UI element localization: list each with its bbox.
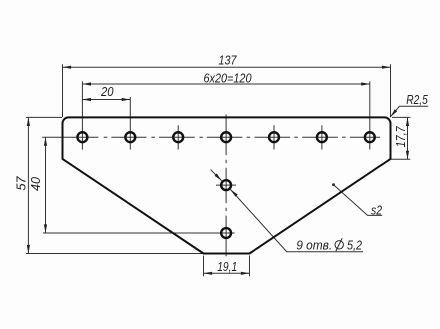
arrow 20 right — [122, 98, 131, 101]
extension line 137 left — [62, 64, 64, 117]
arrow 19.1 right — [241, 272, 250, 275]
arrow 40 top — [44, 137, 47, 146]
centerline hole 3 vertical — [177, 125, 179, 149]
extension line 40 bottom through lower middle hole — [43, 232, 235, 234]
arrow 57 bottom — [27, 245, 30, 254]
dimension line 40 — [45, 137, 47, 233]
arrow diameter lower-right — [229, 188, 237, 196]
svg-text:40: 40 — [28, 176, 43, 191]
extension line hole2 vertical — [129, 97, 131, 150]
dimension line 137 — [63, 66, 391, 68]
arrow 19.1 left — [204, 272, 213, 275]
hole 3 — [173, 132, 183, 142]
arrow 17.7 bottom — [406, 151, 409, 160]
extension line 17.7 bottom — [391, 158, 411, 160]
dimension line 57 — [27, 117, 29, 253]
arrow 20 left — [82, 98, 91, 101]
centerline horizontal through top hole row — [42, 136, 380, 138]
extension line hole7 vertical — [369, 81, 371, 149]
hole 6 — [317, 132, 327, 142]
diameter symbol — [335, 238, 343, 251]
extension line hole1 vertical — [81, 81, 83, 149]
dimension line 6x20=120 — [82, 83, 369, 85]
svg-text:20: 20 — [100, 84, 114, 99]
hole 4 — [221, 132, 231, 142]
centerline hole 5 vertical — [273, 125, 275, 149]
svg-text:17,7: 17,7 — [393, 126, 408, 148]
hole 1 — [77, 132, 87, 142]
hole 5 — [269, 132, 279, 142]
svg-text:9 отв.: 9 отв. — [296, 238, 332, 253]
svg-text:s2: s2 — [371, 203, 383, 218]
extension line 19.1 left — [203, 256, 205, 277]
svg-text:R2,5: R2,5 — [406, 92, 428, 107]
leader R2.5 — [390, 106, 428, 117]
middle hole lower — [221, 228, 231, 238]
plate outline — [63, 117, 391, 253]
dimension line 20 — [82, 99, 130, 101]
leader s2 — [334, 185, 383, 216]
middle hole upper — [221, 180, 231, 190]
arrow R2.5 — [389, 109, 397, 118]
leader diameter lower-right segment with shelf — [231, 190, 364, 252]
dimension line 19.1 — [204, 272, 250, 274]
arrow 57 top — [27, 117, 30, 126]
leader diameter upper-left segment — [211, 170, 222, 181]
arrow 137 right — [382, 66, 391, 69]
svg-text:5,2: 5,2 — [347, 238, 363, 253]
arrow 137 left — [63, 66, 72, 69]
centerline hole 6 vertical — [321, 125, 323, 149]
centerline vertical main axis — [225, 114, 227, 256]
extension line 57 bottom — [26, 253, 204, 255]
arrow 120 left — [82, 82, 91, 85]
extension line 57 top — [26, 116, 62, 118]
hole 2 — [125, 132, 135, 142]
svg-text:57: 57 — [13, 176, 28, 191]
extension line 17.7 top — [392, 116, 410, 118]
arrow 120 right — [361, 82, 370, 85]
arrow 17.7 top — [406, 117, 409, 126]
dimension line 17.7 — [407, 117, 409, 159]
extension line 137 right — [390, 64, 392, 117]
svg-text:6x20=120: 6x20=120 — [204, 70, 253, 85]
hole 7 — [365, 132, 375, 142]
arrow diameter upper-left — [214, 173, 222, 181]
svg-text:137: 137 — [219, 53, 238, 68]
extension line 19.1 right — [249, 256, 251, 277]
centerline middle hole horizontal — [216, 184, 236, 186]
leader dot s2 — [332, 183, 335, 186]
arrow 40 bottom — [44, 224, 47, 233]
svg-text:19,1: 19,1 — [217, 259, 237, 274]
